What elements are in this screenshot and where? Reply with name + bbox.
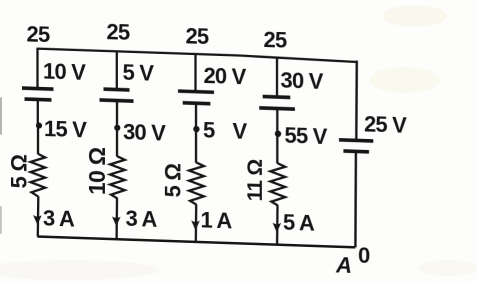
battery B4 bottom plate — [259, 108, 295, 109]
wire branch2 node to resistor — [116, 128, 118, 157]
svg-text:25: 25 — [264, 27, 287, 53]
label 11 ohm (rotated) — [244, 159, 267, 201]
svg-text:5 Ω: 5 Ω — [160, 163, 185, 198]
battery B1 bottom plate — [25, 97, 52, 102]
battery B2 top plate — [104, 87, 130, 91]
battery B4 top plate — [263, 95, 291, 100]
label 5 V (node, spaced) — [203, 117, 247, 144]
resistor R4 11 ohm zigzag — [270, 163, 285, 206]
svg-text:25: 25 — [27, 22, 50, 48]
current arrow 3 A branch2 — [112, 216, 121, 226]
label 5 ohm branch3 (rotated) — [160, 163, 185, 198]
label 5 V — [123, 60, 155, 86]
wire branch2 upper — [116, 50, 118, 90]
label 5 ohm (rotated) — [6, 154, 31, 189]
label 25 (branch 3 top) — [186, 23, 209, 49]
label 25 (branch 4 top) — [264, 27, 287, 53]
scanner edge artifact left upper — [0, 97, 2, 135]
svg-text:5 V: 5 V — [123, 60, 155, 86]
svg-text:5: 5 — [203, 117, 215, 142]
svg-text:0: 0 — [358, 243, 370, 268]
node dot 5 V — [193, 126, 199, 133]
resistor R1 5 ohm zigzag — [31, 154, 46, 197]
label 3 A branch2 — [125, 206, 157, 232]
battery B5 top plate — [339, 140, 373, 141]
node dot 30 V — [114, 125, 120, 131]
wire right edge lower — [354, 151, 357, 247]
wire branch3 resistor to bottom — [195, 204, 198, 242]
svg-text:3 A: 3 A — [125, 206, 157, 232]
svg-text:30 V: 30 V — [281, 68, 324, 94]
wire branch3 node to resistor — [195, 129, 197, 163]
current arrow 3 A branch1 — [33, 215, 42, 225]
battery B3 bottom plate — [183, 101, 211, 106]
svg-text:10 V: 10 V — [43, 58, 86, 84]
wire branch3 upper — [194, 53, 196, 92]
label 10 V — [43, 58, 86, 84]
label 10 ohm (rotated) — [84, 147, 110, 195]
node dot 15 V — [36, 122, 42, 128]
svg-text:55 V: 55 V — [285, 123, 328, 149]
label node A — [335, 252, 351, 278]
label node 0 — [358, 243, 370, 268]
wire branch1 node to resistor — [37, 125, 39, 154]
wire bottom horizontal — [37, 237, 355, 248]
label 30 V (node) — [123, 119, 166, 145]
wire top horizontal — [38, 49, 357, 62]
wire branch1 battery to node — [37, 99, 39, 127]
current arrow 5 A — [273, 223, 282, 233]
resistor R2 10 ohm zigzag — [110, 156, 125, 199]
wire branch2 battery to node — [116, 101, 118, 129]
battery B1 top plate — [22, 88, 54, 89]
svg-text:3 A: 3 A — [43, 205, 75, 231]
svg-text:10 Ω: 10 Ω — [84, 147, 110, 195]
label 5 A — [283, 209, 315, 235]
resistor R3 5 ohm zigzag — [189, 162, 204, 205]
svg-text:5 Ω: 5 Ω — [6, 154, 31, 189]
svg-text:25: 25 — [186, 23, 209, 49]
label 30 V (branch4 top) — [281, 68, 324, 94]
svg-text:11 Ω: 11 Ω — [244, 159, 267, 201]
label 25 (branch 2 top) — [107, 19, 130, 45]
battery B2 bottom plate — [100, 100, 134, 101]
wire branch4 upper — [276, 56, 278, 97]
label 55 V — [285, 123, 328, 149]
svg-text:25 V: 25 V — [364, 112, 407, 138]
battery B3 top plate — [178, 91, 214, 92]
current arrow 1 A — [191, 220, 200, 230]
wire branch1 resistor to bottom — [37, 196, 40, 236]
scanner edge artifact left lower — [0, 206, 2, 234]
wire branch4 battery to node — [276, 109, 278, 136]
label 25 V (right battery) — [364, 112, 407, 138]
wire branch1 upper — [36, 48, 38, 88]
label 20 V — [204, 63, 247, 89]
svg-text:25: 25 — [107, 19, 130, 45]
label 15 V — [44, 116, 87, 142]
label 25 (branch 1 top) — [27, 22, 50, 48]
battery B5 bottom plate — [343, 149, 369, 153]
wire branch3 battery to node — [195, 103, 197, 130]
svg-text:15 V: 15 V — [44, 116, 87, 142]
label 3 A branch1 — [43, 205, 75, 231]
node dot 55 V — [275, 130, 281, 137]
svg-text:1 A: 1 A — [201, 207, 233, 233]
wire branch4 resistor to bottom — [276, 205, 279, 245]
svg-text:V: V — [233, 118, 248, 144]
wire right edge upper — [355, 61, 358, 141]
svg-text:5 A: 5 A — [283, 209, 315, 235]
label 1 A — [201, 207, 233, 233]
svg-text:A: A — [335, 252, 351, 278]
wire branch2 resistor to bottom — [115, 198, 118, 239]
svg-text:20 V: 20 V — [204, 63, 247, 89]
wire branch4 node to resistor — [276, 134, 278, 164]
svg-text:30 V: 30 V — [123, 119, 166, 145]
